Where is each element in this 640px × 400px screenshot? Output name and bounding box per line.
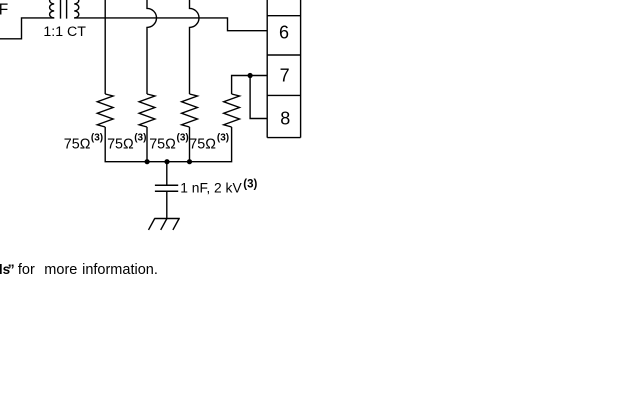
svg-text:(3): (3)	[217, 132, 229, 143]
resistor R2 zigzag	[139, 94, 155, 127]
svg-text:6: 6	[279, 23, 289, 43]
resistor R1 zigzag	[97, 94, 113, 127]
label R2 value 75ohm note 3	[107, 132, 146, 152]
capacitor C1 value label "1 nF, 2 kV(3)"	[180, 179, 257, 196]
wire junction to resistor R4	[232, 76, 251, 95]
RJ45 connector pin strip	[267, 0, 300, 138]
transformer T1 left winding	[50, 0, 55, 18]
wire junction to RJ45 pin 8	[250, 76, 267, 119]
transformer T1 right winding	[74, 0, 79, 18]
svg-text:1 nF, 2 kV: 1 nF, 2 kV	[180, 180, 242, 195]
svg-text:(3): (3)	[91, 132, 103, 143]
svg-text:75Ω: 75Ω	[64, 137, 91, 153]
svg-text:1:1 CT: 1:1 CT	[43, 24, 86, 40]
capacitor C1 plates	[155, 185, 178, 191]
caption text fragment	[0, 261, 158, 278]
svg-text:(3): (3)	[177, 132, 189, 143]
svg-text:75Ω: 75Ω	[107, 137, 134, 153]
svg-text:for: for	[18, 262, 35, 278]
wire vertical drop to resistor R2 with hop over pin-6 wire	[147, 0, 157, 94]
resistor R3 zigzag	[182, 94, 198, 127]
svg-text:8: 8	[280, 109, 290, 129]
svg-text:(3): (3)	[134, 132, 146, 143]
wire bottom rail R1 to R4	[105, 127, 231, 162]
junction dot pins 7-8 tie	[248, 73, 253, 78]
wire RJ45 pin 7 to junction	[250, 75, 267, 77]
resistor R4 zigzag	[224, 94, 240, 127]
junction dot rail at capacitor	[164, 159, 169, 164]
svg-text:(3): (3)	[243, 179, 257, 191]
svg-text:7: 7	[280, 66, 290, 86]
transformer T1 core	[61, 0, 67, 19]
wire vertical drop to resistor R1	[104, 0, 106, 94]
wire capacitor C1 to chassis ground	[166, 191, 168, 218]
svg-text:F: F	[0, 2, 8, 19]
wire rail to capacitor C1	[166, 162, 168, 186]
svg-text:75Ω: 75Ω	[189, 137, 216, 153]
label R3 value 75ohm note 3	[149, 132, 189, 152]
label R4 value 75ohm note 3	[189, 132, 229, 152]
svg-text:information.: information.	[82, 262, 158, 278]
svg-text:75Ω: 75Ω	[149, 137, 176, 153]
junction dot rail at R2	[145, 159, 150, 164]
svg-text:more: more	[44, 262, 77, 278]
label R1 value 75ohm note 3	[64, 132, 103, 152]
wire R2 bottom lead	[146, 127, 148, 162]
wire R3 bottom lead	[189, 127, 191, 162]
svg-text:”: ”	[8, 261, 15, 277]
wire T1 right winding to RJ45 pin 6	[74, 18, 267, 31]
junction dot rail at R3	[187, 159, 192, 164]
chassis ground symbol	[149, 219, 180, 230]
wire vertical drop to resistor R3 with hop over pin-6 wire	[190, 0, 200, 94]
wire T1 left winding to left edge	[0, 18, 54, 39]
